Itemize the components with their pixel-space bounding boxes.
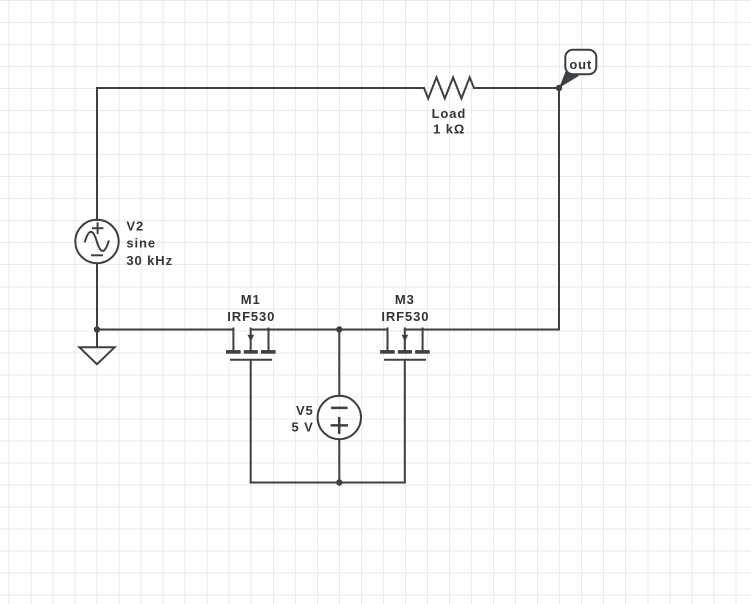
wire mid rail: M3 body/source to right vertical: [405, 329, 559, 331]
wire mid rail: M1 body/source to M3 drain: [251, 329, 387, 331]
wire top rail right segment: [474, 87, 559, 89]
M3 label: [381, 292, 429, 324]
V2 label: [126, 218, 173, 267]
svg-text:5 V: 5 V: [291, 420, 313, 435]
V5 label: [291, 403, 313, 434]
node junction mid rail / V5 top: [336, 326, 342, 332]
wire ground stub: [96, 330, 98, 347]
svg-text:V2: V2: [126, 218, 144, 233]
wire mid rail: ground node to M1 drain: [97, 329, 233, 331]
wire right vertical (out node down to source rail): [558, 88, 560, 330]
node junction at out: [556, 85, 562, 91]
wire M3 gate lead down: [404, 361, 406, 483]
wire M1 gate lead down: [250, 361, 252, 483]
svg-text:M3: M3: [395, 292, 415, 307]
wire V5 bottom lead: [338, 439, 340, 482]
transistor M3: [380, 329, 430, 360]
svg-text:IRF530: IRF530: [227, 309, 275, 324]
svg-text:sine: sine: [126, 236, 156, 251]
M1 label: [227, 292, 275, 324]
node junction bottom rail / V5 bottom: [336, 479, 342, 485]
svg-text:1 kΩ: 1 kΩ: [433, 121, 465, 136]
wire top rail left segment: [97, 87, 424, 89]
svg-text:M1: M1: [241, 292, 261, 307]
wire top-left vertical (out of V2 top up to top rail): [96, 88, 98, 220]
voltage source V2: [75, 220, 118, 263]
resistor Load (zigzag body): [424, 77, 474, 98]
wire V2 bottom lead: [96, 263, 98, 329]
ground: [79, 347, 114, 364]
node junction at ground: [94, 326, 100, 332]
svg-text:out: out: [569, 57, 592, 72]
svg-text:IRF530: IRF530: [381, 309, 429, 324]
svg-text:30 kHz: 30 kHz: [126, 253, 173, 268]
voltage source V5: [318, 396, 361, 439]
svg-text:V5: V5: [296, 403, 314, 418]
node out (flag): [559, 50, 596, 88]
wire bottom gate rail: [251, 482, 405, 484]
transistor M1: [226, 329, 276, 360]
wire V5 top lead: [338, 330, 340, 396]
resistor Load label: [432, 106, 467, 137]
svg-text:Load: Load: [432, 106, 467, 121]
